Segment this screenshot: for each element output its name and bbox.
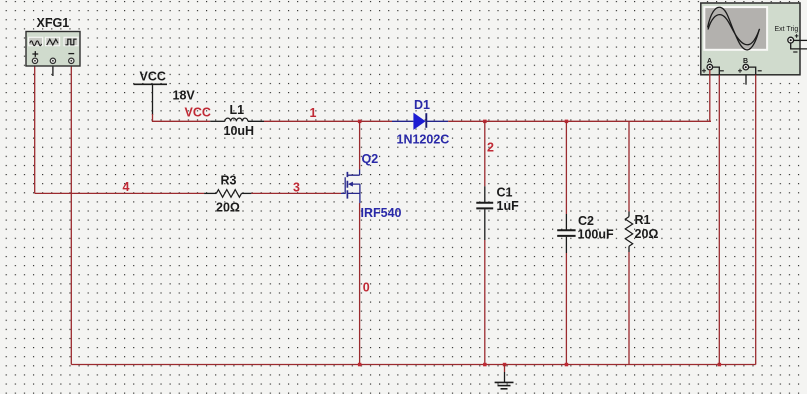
wire: scope A+ down to output net <box>710 70 711 122</box>
svg-text:3: 3 <box>293 181 300 195</box>
svg-text:R3: R3 <box>221 174 237 188</box>
wire: node 3 from R3 to Q2 gate <box>251 192 341 194</box>
wire: ground bus <box>71 364 755 366</box>
wire: scope B+ stub (unconnected) <box>745 75 747 85</box>
inductor L1 <box>210 103 264 138</box>
svg-text:VCC: VCC <box>185 106 211 120</box>
ext trig terminal <box>788 37 794 43</box>
junction at ground stub on bus <box>503 363 507 367</box>
wire: node 4 from XFG1 to R3 <box>35 192 204 194</box>
mosfet body <box>341 177 345 194</box>
svg-text:4: 4 <box>123 180 130 194</box>
svg-text:18V: 18V <box>173 89 196 103</box>
coil body <box>210 120 225 122</box>
oscilloscope XSC1 <box>701 3 807 75</box>
svg-text:1N1202C: 1N1202C <box>397 133 450 147</box>
junction at C1 bottom on bus <box>483 363 487 367</box>
svg-text:L1: L1 <box>230 103 245 117</box>
wire: R1 top from output net <box>628 121 630 211</box>
wire: diode to oscilloscope A+ (output net) <box>448 120 710 122</box>
svg-text:10uH: 10uH <box>224 124 255 138</box>
diode D1 <box>392 98 449 147</box>
svg-text:20Ω: 20Ω <box>216 201 240 215</box>
junction at C2 bottom on bus <box>565 363 569 367</box>
wire: L1 to diode (node 1) <box>264 120 392 122</box>
svg-text:1: 1 <box>310 106 317 120</box>
power symbol VCC <box>134 70 168 116</box>
junction at scope A minus on bus <box>718 363 722 367</box>
capacitor C1 <box>476 186 519 241</box>
diode body <box>392 120 413 122</box>
svg-text:0: 0 <box>363 281 370 295</box>
MOSFET Q2 <box>341 152 402 220</box>
wire: Q2 source down to ground bus (node 0) <box>359 203 361 365</box>
ground symbol <box>495 365 514 389</box>
wire: XFG1 middle terminal stub (unconnected) <box>52 63 54 76</box>
svg-text:Q2: Q2 <box>362 152 379 166</box>
svg-text:R1: R1 <box>635 213 651 227</box>
scope trace A <box>708 7 760 50</box>
svg-text:IRF540: IRF540 <box>361 206 402 220</box>
junction at C2 top <box>565 120 569 124</box>
svg-text:C1: C1 <box>497 186 513 200</box>
wire: VCC lead corner <box>153 114 211 121</box>
wire: R1 down to ground bus <box>628 252 630 365</box>
svg-text:1uF: 1uF <box>497 199 520 213</box>
capacitor C2 <box>557 214 614 253</box>
resistor R3 <box>204 174 251 215</box>
wire: C2 down to ground bus <box>565 253 567 365</box>
junction at Q2 source on bus <box>358 363 362 367</box>
svg-text:D1: D1 <box>414 98 430 112</box>
wire: scope B- down to ground bus corner <box>755 75 757 365</box>
svg-text:VCC: VCC <box>140 70 166 84</box>
wire: scope A- down to ground bus <box>718 75 720 365</box>
svg-text:100uF: 100uF <box>578 228 614 242</box>
resistor R1 <box>625 212 658 253</box>
wire: C2 top from output net <box>565 121 567 214</box>
junction at Q2 drain <box>358 120 362 124</box>
svg-text:XFG1: XFG1 <box>37 16 70 30</box>
svg-text:Ext Trig: Ext Trig <box>775 26 799 33</box>
wire: XFG1 minus terminal down to ground bus <box>70 63 72 364</box>
svg-text:C2: C2 <box>578 214 594 228</box>
svg-text:2: 2 <box>487 141 494 155</box>
function generator XFG1 <box>26 16 80 66</box>
scope trace B <box>708 15 760 45</box>
junction at C1 top <box>483 120 487 124</box>
zigzag body <box>204 192 216 194</box>
wire: XFG1 plus terminal down to gate net (node 4) <box>34 63 36 193</box>
wire: C1 down to ground bus <box>484 240 486 365</box>
ext trig wires to edge <box>794 39 807 41</box>
svg-text:20Ω: 20Ω <box>635 227 659 241</box>
wire: node 2 drop to C1 <box>484 121 486 186</box>
wire: junction down to Q2 drain <box>359 121 361 169</box>
